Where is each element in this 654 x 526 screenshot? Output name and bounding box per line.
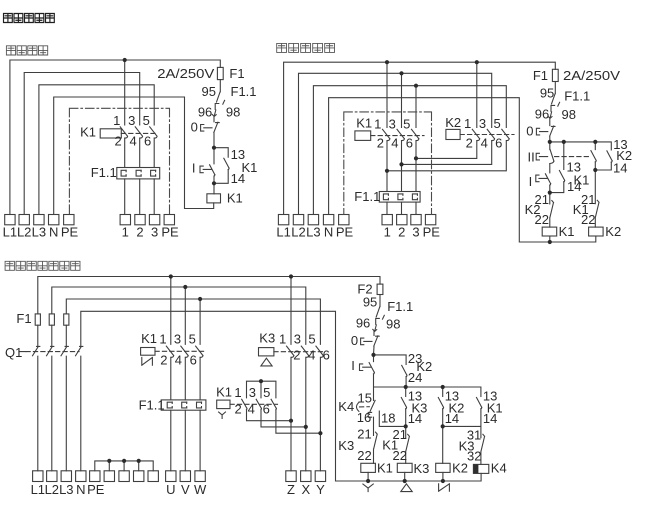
- svg-text:1: 1: [234, 385, 241, 400]
- svg-text:L3: L3: [32, 224, 46, 239]
- svg-text:K1: K1: [377, 461, 393, 476]
- svg-text:1: 1: [384, 224, 391, 239]
- svg-text:18: 18: [381, 411, 395, 426]
- svg-text:Q1: Q1: [5, 345, 22, 360]
- svg-text:5: 5: [189, 331, 196, 346]
- svg-text:98: 98: [562, 107, 576, 122]
- svg-text:Y: Y: [316, 482, 325, 497]
- svg-text:2A/250V: 2A/250V: [563, 68, 620, 83]
- svg-text:K1: K1: [80, 125, 96, 140]
- svg-text:K1: K1: [216, 385, 232, 400]
- svg-text:96: 96: [356, 316, 370, 331]
- svg-text:L3: L3: [306, 224, 320, 239]
- svg-text:6: 6: [190, 352, 197, 367]
- svg-text:F1.1: F1.1: [139, 398, 165, 413]
- svg-text:6: 6: [406, 135, 413, 150]
- svg-text:22: 22: [581, 212, 595, 227]
- svg-text:4: 4: [391, 135, 398, 150]
- svg-text:96: 96: [198, 104, 212, 119]
- svg-text:6: 6: [323, 348, 330, 363]
- svg-text:3: 3: [151, 224, 158, 239]
- svg-text:95: 95: [202, 84, 216, 99]
- svg-text:14: 14: [445, 411, 459, 426]
- svg-text:F1: F1: [229, 66, 244, 81]
- svg-text:1: 1: [159, 331, 166, 346]
- svg-text:N: N: [76, 482, 85, 497]
- svg-text:K4: K4: [491, 460, 507, 475]
- svg-text:PE: PE: [423, 224, 441, 239]
- svg-text:1: 1: [279, 331, 286, 346]
- svg-text:3: 3: [412, 224, 419, 239]
- svg-text:3: 3: [128, 113, 135, 128]
- svg-text:0: 0: [351, 333, 358, 348]
- svg-text:95: 95: [540, 86, 554, 101]
- svg-text:L2: L2: [291, 224, 305, 239]
- svg-text:4: 4: [175, 352, 182, 367]
- svg-text:PE: PE: [87, 482, 105, 497]
- svg-text:2: 2: [234, 402, 241, 417]
- svg-text:L1: L1: [3, 224, 17, 239]
- svg-text:F1.1: F1.1: [564, 89, 590, 104]
- svg-text:N: N: [49, 224, 58, 239]
- svg-text:4: 4: [248, 402, 255, 417]
- svg-text:98: 98: [226, 104, 240, 119]
- svg-text:14: 14: [567, 179, 581, 194]
- svg-text:V: V: [181, 482, 190, 497]
- svg-text:96: 96: [535, 107, 549, 122]
- svg-text:L2: L2: [17, 224, 31, 239]
- svg-text:Z: Z: [287, 482, 295, 497]
- svg-text:22: 22: [357, 448, 371, 463]
- svg-text:0: 0: [191, 119, 198, 134]
- svg-text:L1: L1: [31, 482, 45, 497]
- svg-text:F1: F1: [533, 68, 548, 83]
- svg-text:I: I: [351, 358, 355, 373]
- svg-text:F1.1: F1.1: [231, 84, 257, 99]
- svg-text:2: 2: [398, 224, 405, 239]
- svg-text:14: 14: [613, 161, 627, 176]
- svg-text:2A/250V: 2A/250V: [157, 66, 214, 81]
- svg-text:1: 1: [464, 116, 471, 131]
- svg-text:5: 5: [403, 116, 410, 131]
- svg-text:L1: L1: [276, 224, 290, 239]
- svg-text:1: 1: [122, 224, 129, 239]
- svg-text:5: 5: [143, 113, 150, 128]
- svg-text:K3: K3: [338, 438, 354, 453]
- svg-text:K4: K4: [338, 399, 354, 414]
- svg-text:3: 3: [249, 385, 256, 400]
- svg-text:3: 3: [294, 331, 301, 346]
- svg-text:22: 22: [535, 212, 549, 227]
- svg-text:6: 6: [144, 134, 151, 149]
- svg-text:1: 1: [113, 113, 120, 128]
- svg-text:95: 95: [363, 294, 377, 309]
- svg-text:PE: PE: [161, 224, 179, 239]
- svg-text:K1: K1: [141, 331, 157, 346]
- svg-text:5: 5: [263, 385, 270, 400]
- svg-text:X: X: [301, 482, 310, 497]
- svg-text:I: I: [192, 161, 196, 176]
- svg-text:1: 1: [374, 116, 381, 131]
- svg-text:L2: L2: [45, 482, 59, 497]
- svg-text:L3: L3: [59, 482, 73, 497]
- svg-text:F1: F1: [16, 311, 31, 326]
- svg-text:14: 14: [231, 171, 245, 186]
- svg-text:21: 21: [357, 427, 371, 442]
- svg-text:K3: K3: [414, 461, 430, 476]
- svg-text:F1.1: F1.1: [91, 165, 117, 180]
- svg-text:K2: K2: [445, 115, 461, 130]
- svg-text:14: 14: [483, 411, 497, 426]
- svg-text:PE: PE: [61, 224, 79, 239]
- svg-text:0: 0: [526, 124, 533, 139]
- svg-text:2: 2: [466, 135, 473, 150]
- svg-text:K2: K2: [452, 460, 468, 475]
- svg-text:U: U: [166, 482, 175, 497]
- svg-text:22: 22: [393, 448, 407, 463]
- svg-text:K3: K3: [259, 331, 275, 346]
- svg-text:K1: K1: [559, 224, 575, 239]
- svg-text:N: N: [324, 224, 333, 239]
- svg-text:K1: K1: [356, 116, 372, 131]
- svg-text:16: 16: [357, 410, 371, 425]
- svg-text:24: 24: [408, 370, 422, 385]
- svg-text:2: 2: [377, 135, 384, 150]
- svg-text:4: 4: [129, 134, 136, 149]
- svg-text:6: 6: [495, 135, 502, 150]
- svg-text:I: I: [529, 174, 533, 189]
- svg-text:98: 98: [386, 316, 400, 331]
- svg-text:K2: K2: [605, 224, 621, 239]
- svg-text:4: 4: [308, 348, 315, 363]
- svg-text:2: 2: [114, 134, 121, 149]
- svg-text:3: 3: [174, 331, 181, 346]
- svg-text:K1: K1: [227, 190, 243, 205]
- svg-text:F1.1: F1.1: [387, 299, 413, 314]
- svg-text:4: 4: [481, 135, 488, 150]
- svg-text:II: II: [527, 150, 534, 165]
- svg-text:2: 2: [136, 224, 143, 239]
- svg-text:3: 3: [479, 116, 486, 131]
- svg-text:32: 32: [467, 449, 481, 464]
- svg-text:2: 2: [293, 348, 300, 363]
- svg-text:6: 6: [263, 402, 270, 417]
- svg-text:5: 5: [308, 331, 315, 346]
- svg-text:F1.1: F1.1: [354, 189, 380, 204]
- svg-text:W: W: [194, 482, 207, 497]
- svg-text:3: 3: [389, 116, 396, 131]
- svg-text:2: 2: [160, 352, 167, 367]
- svg-text:14: 14: [408, 411, 422, 426]
- svg-text:PE: PE: [336, 224, 354, 239]
- svg-text:5: 5: [493, 116, 500, 131]
- svg-text:15: 15: [358, 390, 372, 405]
